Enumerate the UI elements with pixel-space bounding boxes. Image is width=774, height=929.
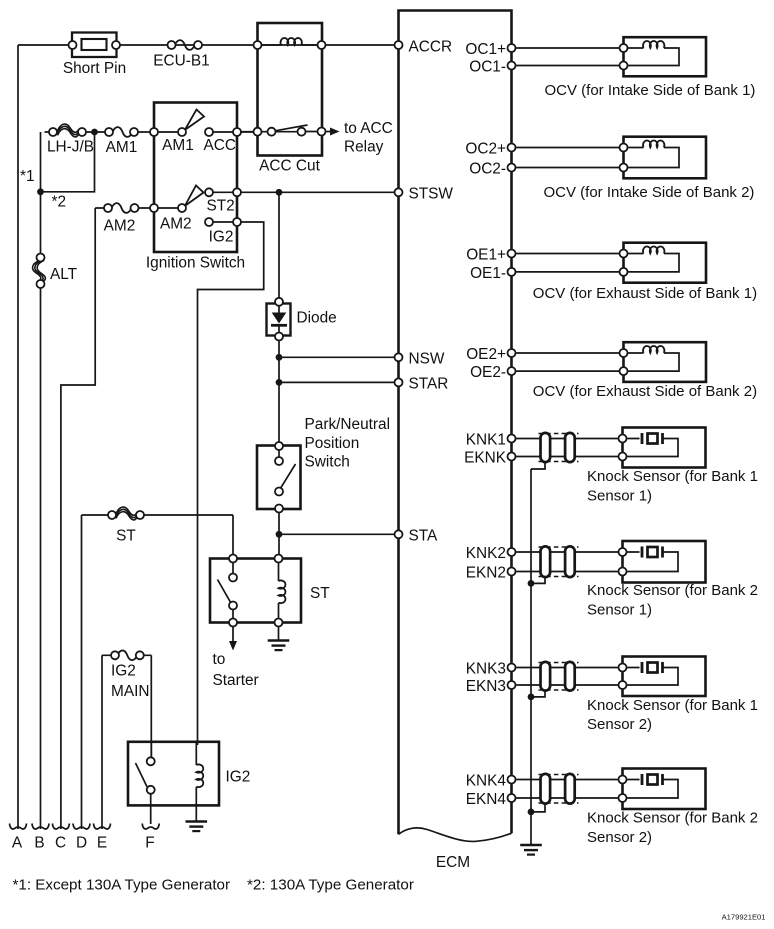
- svg-text:Short Pin: Short Pin: [63, 60, 126, 77]
- svg-text:AM1: AM1: [162, 137, 194, 154]
- svg-text:IG2: IG2: [209, 229, 234, 246]
- svg-text:OC1+: OC1+: [465, 41, 506, 58]
- svg-text:OE2+: OE2+: [466, 346, 506, 363]
- svg-text:ECU-B1: ECU-B1: [153, 53, 209, 70]
- svg-text:OCV (for Exhaust Side of Bank: OCV (for Exhaust Side of Bank 1): [533, 285, 757, 302]
- svg-text:OCV (for Exhaust Side of Bank: OCV (for Exhaust Side of Bank 2): [533, 383, 757, 400]
- svg-text:EKN4: EKN4: [466, 791, 507, 808]
- svg-text:EKN2: EKN2: [466, 564, 506, 581]
- svg-text:Starter: Starter: [213, 672, 259, 689]
- svg-text:ALT: ALT: [50, 266, 78, 283]
- svg-text:B: B: [34, 835, 44, 852]
- svg-text:Relay: Relay: [344, 139, 384, 156]
- svg-text:Switch: Switch: [305, 454, 350, 471]
- svg-text:E: E: [97, 835, 107, 852]
- svg-text:AM2: AM2: [104, 218, 136, 235]
- svg-text:EKNK: EKNK: [464, 449, 507, 466]
- svg-text:*2: *2: [52, 194, 67, 211]
- svg-text:*1: Except 130A Type Generator: *1: Except 130A Type Generator: [13, 877, 231, 894]
- svg-text:KNK4: KNK4: [466, 772, 507, 789]
- svg-text:OE1-: OE1-: [470, 265, 506, 282]
- svg-text:KNK2: KNK2: [466, 545, 506, 562]
- svg-text:IG2: IG2: [111, 663, 136, 680]
- svg-text:*1: *1: [20, 168, 35, 185]
- svg-text:Position: Position: [305, 435, 360, 452]
- svg-text:OE1+: OE1+: [466, 246, 506, 263]
- svg-text:EKN3: EKN3: [466, 678, 506, 695]
- svg-text:C: C: [55, 835, 66, 852]
- svg-text:STSW: STSW: [409, 185, 454, 202]
- svg-text:Sensor 1): Sensor 1): [587, 487, 652, 504]
- svg-text:ACC: ACC: [203, 137, 236, 154]
- svg-text:F: F: [145, 835, 154, 852]
- svg-text:D: D: [76, 835, 87, 852]
- svg-text:to ACC: to ACC: [344, 120, 393, 137]
- svg-text:ECM: ECM: [436, 854, 470, 871]
- svg-text:ST: ST: [116, 528, 136, 545]
- svg-text:OCV (for Intake Side of Bank 1: OCV (for Intake Side of Bank 1): [545, 82, 756, 99]
- svg-text:OCV (for Intake Side of Bank 2: OCV (for Intake Side of Bank 2): [544, 184, 755, 201]
- svg-text:MAIN: MAIN: [111, 683, 149, 700]
- svg-text:A179921E01: A179921E01: [722, 913, 766, 922]
- svg-text:OC2-: OC2-: [469, 160, 506, 177]
- svg-text:LH-J/B: LH-J/B: [47, 139, 94, 156]
- svg-text:ST: ST: [310, 585, 330, 602]
- svg-text:KNK1: KNK1: [466, 431, 506, 448]
- svg-text:STAR: STAR: [409, 375, 449, 392]
- svg-text:Knock Sensor (for Bank 1: Knock Sensor (for Bank 1: [587, 468, 758, 485]
- svg-text:OE2-: OE2-: [470, 364, 506, 381]
- svg-text:KNK3: KNK3: [466, 660, 506, 677]
- svg-text:to: to: [213, 651, 226, 668]
- svg-text:A: A: [12, 835, 23, 852]
- svg-text:Knock Sensor (for Bank 2: Knock Sensor (for Bank 2: [587, 810, 758, 827]
- svg-text:ST2: ST2: [206, 198, 234, 215]
- svg-text:Sensor 2): Sensor 2): [587, 829, 652, 846]
- svg-text:ACC Cut: ACC Cut: [259, 158, 320, 175]
- svg-text:ACCR: ACCR: [409, 39, 453, 56]
- svg-text:*2: 130A Type Generator: *2: 130A Type Generator: [247, 877, 414, 894]
- svg-text:Sensor 2): Sensor 2): [587, 716, 652, 733]
- svg-text:NSW: NSW: [409, 350, 445, 367]
- svg-text:Sensor 1): Sensor 1): [587, 602, 652, 619]
- svg-text:Diode: Diode: [297, 310, 337, 327]
- svg-text:Ignition Switch: Ignition Switch: [146, 255, 245, 272]
- svg-text:AM2: AM2: [160, 216, 192, 233]
- svg-text:OC1-: OC1-: [469, 58, 506, 75]
- svg-text:OC2+: OC2+: [465, 140, 506, 157]
- svg-text:STA: STA: [409, 527, 439, 544]
- svg-text:Knock Sensor (for Bank 1: Knock Sensor (for Bank 1: [587, 697, 758, 714]
- svg-text:Knock Sensor (for Bank 2: Knock Sensor (for Bank 2: [587, 582, 758, 599]
- svg-text:Park/Neutral: Park/Neutral: [305, 416, 391, 433]
- svg-text:IG2: IG2: [226, 769, 251, 786]
- svg-text:AM1: AM1: [106, 139, 138, 156]
